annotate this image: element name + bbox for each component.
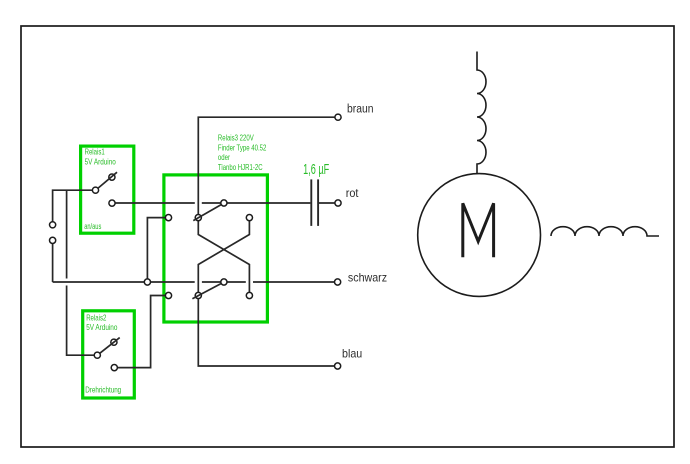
terminal rot (335, 200, 341, 206)
contact relay3 pole1 left (195, 215, 201, 221)
node stub terminal 2 (50, 237, 56, 243)
motor M1 body (418, 174, 541, 297)
contact relay3 pole2 right (246, 292, 252, 298)
capacitor C1 plates (311, 179, 318, 226)
contact Relais1 output (109, 200, 115, 206)
inductor winding vertical (477, 52, 486, 174)
wire common bus down to Relais2 (lower segment) (67, 286, 98, 356)
motor M1 letter M (463, 203, 494, 257)
wire relay3 upper terminal to schwarz junction (147, 218, 168, 282)
relay box Relais3 (green) (164, 175, 268, 322)
contact Relais2 switched (111, 339, 117, 345)
svg-text:Drehrichtung: Drehrichtung (85, 385, 121, 395)
svg-text:5V Arduino: 5V Arduino (85, 156, 116, 166)
wire stub1 to Relais1 common (53, 190, 96, 222)
switch arm relay3 pole1 (193, 205, 221, 221)
contact relay3 pole1 right (246, 215, 252, 221)
terminal schwarz (335, 279, 341, 285)
svg-text:an/aus: an/aus (84, 222, 101, 231)
contact relay3 pole1 common (221, 200, 227, 206)
wire crossover X (left-top to right-bottom) (198, 218, 249, 296)
relay box Relais1 (green) (81, 146, 134, 233)
svg-text:Tianbo HJR1-2C: Tianbo HJR1-2C (218, 162, 263, 172)
wire relay3 lower terminal to Relais2 contact (114, 296, 168, 368)
inductor winding horizontal (551, 227, 659, 236)
svg-text:schwarz: schwarz (348, 272, 387, 284)
svg-text:1,6 µF: 1,6 µF (303, 161, 329, 178)
svg-text:5V Arduino: 5V Arduino (86, 322, 117, 332)
wire crossover X (right-top to left-bottom) (198, 218, 249, 296)
wire rot line (112, 202, 335, 204)
terminal relay3 pole2 coil (165, 292, 171, 298)
relay box Relais2 (green) (83, 311, 135, 398)
contact relay3 pole2 left (195, 292, 201, 298)
wire blau line (198, 296, 334, 367)
switch arm Relais1 (98, 172, 117, 188)
wire schwarz line (53, 281, 335, 283)
contact Relais1 common (92, 187, 98, 193)
svg-text:rot: rot (346, 188, 360, 200)
terminal relay3 pole1 coil (165, 215, 171, 221)
terminal blau (335, 363, 341, 369)
contact relay3 pole2 common (221, 279, 227, 285)
terminal braun (335, 114, 341, 120)
node stub terminal 1 (50, 222, 56, 228)
node junction on schwarz line (144, 279, 150, 285)
switch arm Relais2 (100, 338, 120, 354)
wire common bus down to Relais2 (upper segment) (66, 190, 68, 278)
wire stub2 down to schwarz line (52, 244, 54, 283)
svg-text:blau: blau (342, 348, 362, 360)
contact Relais1 switched (109, 174, 115, 180)
wire braun line (198, 117, 335, 217)
svg-text:braun: braun (347, 103, 373, 116)
contact Relais2 output (111, 365, 117, 371)
contact Relais2 common (94, 352, 100, 358)
switch arm relay3 pole2 (192, 284, 221, 299)
